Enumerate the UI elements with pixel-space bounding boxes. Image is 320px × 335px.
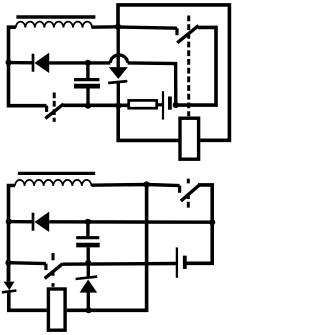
- node junction dot capacitor C2 bottom / diode D5 top: [85, 260, 91, 266]
- capacitor C1 bottom plate: [74, 84, 100, 89]
- node junction dot left vertical / diode row: [6, 59, 12, 65]
- switch S2 blade: [177, 26, 198, 43]
- wire diode row from left vertical to diode D3: [9, 220, 34, 224]
- node C junction dot: [144, 181, 150, 187]
- node junction dot left vertical / diode row: [6, 219, 12, 225]
- node junction dot capacitor C2 top: [85, 219, 91, 225]
- capacitor C2 bottom lead: [86, 247, 89, 263]
- wire switch row from S4 to battery B2: [63, 262, 177, 266]
- inductor L1: [16, 22, 92, 28]
- capacitor C1 top lead: [86, 63, 89, 79]
- wire diode D4 cathode down to bottom rail and right to heater box H2: [9, 291, 47, 310]
- core bar of inductor L2: [18, 172, 95, 175]
- node junction dot diode D5 bottom on rail: [86, 307, 92, 313]
- resistor R1: [129, 100, 157, 108]
- capacitor C2 top lead: [86, 222, 89, 237]
- wire from diode D1 to crossover hump: [49, 61, 110, 64]
- diode D5 anode lead from switch row node: [87, 263, 90, 279]
- switch S1 linkage (dashed): [53, 93, 56, 122]
- battery B2 positive plate (long): [176, 247, 178, 277]
- capacitor C2 top plate: [76, 236, 99, 239]
- wire from rail node down and right to heater box H1 left side: [118, 106, 178, 141]
- node junction dot capacitor C1 bottom on rail: [85, 103, 91, 109]
- wire left side and bottom rail to switch S1: [9, 27, 47, 106]
- diode D1 triangle: [35, 53, 50, 73]
- switch S1 blade: [45, 104, 63, 118]
- battery B1 positive plate (long): [162, 91, 164, 119]
- switch S4 contact post: [44, 264, 47, 271]
- wire from hump right to corner and down to battery node B: [128, 63, 176, 105]
- wire from node A to switch S2: [118, 27, 177, 28]
- diode D5 bottom lead to bottom rail: [87, 293, 90, 311]
- battery B2 negative plate (short thick): [183, 256, 187, 269]
- wire diode row from left vertical to diode D1: [9, 61, 34, 65]
- wire switch S3 output down right side to battery B2: [187, 185, 213, 263]
- diode D3 triangle: [35, 212, 50, 232]
- diode D5 cathode bar: [76, 277, 98, 279]
- inductor L2: [15, 180, 91, 186]
- wire from switch S2 down to battery node B: [178, 27, 217, 105]
- diode D5 triangle (pointing up): [80, 280, 98, 293]
- heater box H2: [48, 289, 65, 330]
- node A junction dot: [115, 24, 121, 30]
- switch S2 contact post: [175, 28, 178, 35]
- zener diode D2 anode lead from node A: [116, 27, 119, 67]
- diode D1 cathode bar: [32, 54, 35, 72]
- wire from inductor L2 to node C and switch S3: [91, 185, 179, 186]
- switch S1 contact post: [45, 106, 48, 112]
- capacitor C2 bottom plate: [76, 243, 100, 248]
- wire from inductor L1 to node A: [92, 25, 119, 29]
- zener diode D2 triangle: [109, 67, 128, 79]
- capacitor C1 top plate: [74, 78, 99, 81]
- switch S4 linkage to heater box H2 (dashed): [52, 253, 55, 287]
- wire outer loop: node A up, top rail, right side down to heater box H1: [118, 5, 229, 140]
- wire node C down to bottom rail corner and left to heater box H2: [67, 185, 147, 311]
- switch S2 linkage to heater box H1 (dashed): [187, 16, 190, 117]
- node junction dot capacitor C1 top: [85, 60, 91, 66]
- switch S4 blade: [45, 264, 63, 279]
- wire resistor R1 to battery B1: [158, 103, 162, 106]
- diode D4 anode lead (left column): [7, 263, 11, 282]
- crossover hump (wire jumps over zener column): [110, 55, 127, 63]
- diode D4 triangle (pointing down): [4, 282, 15, 291]
- diode D3 cathode bar: [32, 213, 35, 231]
- wire bottom rail from switch S1 to resistor R1: [63, 104, 128, 108]
- heater box H1: [180, 118, 199, 159]
- wire left side of bottom circuit: [9, 186, 16, 282]
- switch S3 linkage (dashed): [187, 179, 190, 208]
- wire diode row from D3 to node D: [49, 220, 212, 224]
- diode D4 cathode bar: [2, 291, 17, 293]
- node B junction dot battery output: [173, 102, 179, 108]
- zener diode D2 cathode lead to rail: [117, 82, 120, 106]
- switch S3 blade: [181, 185, 199, 201]
- core bar of inductor L1: [16, 15, 95, 18]
- switch S3 contact post: [178, 186, 181, 193]
- node junction dot left vertical / switch row: [5, 260, 11, 266]
- wire switch row from left vertical to switch S4: [9, 261, 46, 265]
- battery B1 negative plate (short thick): [168, 97, 172, 110]
- node junction dot zener bottom on rail: [115, 103, 121, 109]
- node D junction dot right column / diode row: [209, 219, 215, 225]
- capacitor C1 bottom lead: [86, 88, 89, 105]
- zener diode D2 cathode bar: [108, 81, 127, 83]
